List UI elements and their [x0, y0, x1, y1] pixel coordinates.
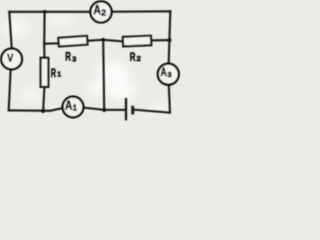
ammeter A3 — [158, 64, 179, 85]
ammeter A2 — [90, 1, 111, 22]
svg-text:V: V — [7, 53, 14, 65]
label R2 — [130, 50, 141, 64]
junction node: R1 branch bottom — [41, 109, 45, 113]
svg-text:2: 2 — [136, 54, 141, 63]
svg-text:1: 1 — [73, 103, 78, 112]
wire: left side through V — [9, 12, 12, 111]
junction node: R2 right / right side — [167, 38, 171, 42]
junction node: mid vertical bottom — [102, 108, 106, 112]
wire: mid junction to R2 left lead — [103, 40, 123, 42]
wire: R2 right lead to right side — [151, 39, 169, 41]
wire: R3 left lead — [44, 42, 58, 45]
svg-text:3: 3 — [72, 55, 76, 64]
resistor R3 (box) — [58, 36, 87, 47]
wire: battery to bottom-right corner — [133, 110, 170, 113]
svg-text:2: 2 — [101, 8, 106, 17]
wire: bottom side left portion — [9, 108, 73, 111]
svg-text:A: A — [65, 99, 72, 113]
svg-text:A: A — [161, 67, 167, 79]
svg-text:R: R — [130, 50, 136, 64]
svg-text:R: R — [51, 66, 56, 80]
wire: middle vertical branch — [103, 40, 104, 110]
battery short plate — [131, 106, 134, 115]
wire: top side (left corner to right corner) — [9, 10, 170, 13]
resistor R2 (box) — [123, 36, 151, 47]
paper background — [0, 0, 187, 124]
svg-text:A: A — [94, 3, 101, 17]
wire: bottom A1 to battery — [73, 108, 126, 110]
junction node: top of R1 branch — [43, 10, 47, 14]
svg-text:3: 3 — [167, 70, 171, 79]
svg-text:R: R — [65, 50, 71, 64]
battery long plate — [125, 98, 127, 120]
svg-text:1: 1 — [57, 72, 61, 79]
label R3 — [65, 50, 76, 64]
wire: branch from top wire down to R3 tee and R1 — [43, 12, 45, 58]
voltmeter V — [1, 49, 22, 70]
resistor R1 (box, vertical) — [41, 58, 49, 87]
label R1 — [51, 66, 62, 80]
junction node: mid vertical top — [101, 38, 105, 42]
wire: R3 right lead to mid junction — [87, 40, 103, 41]
ammeter A1 — [63, 97, 84, 118]
wire: R1 bottom lead to bottom wire — [43, 87, 44, 111]
wire: right side through A3 — [168, 11, 170, 112]
